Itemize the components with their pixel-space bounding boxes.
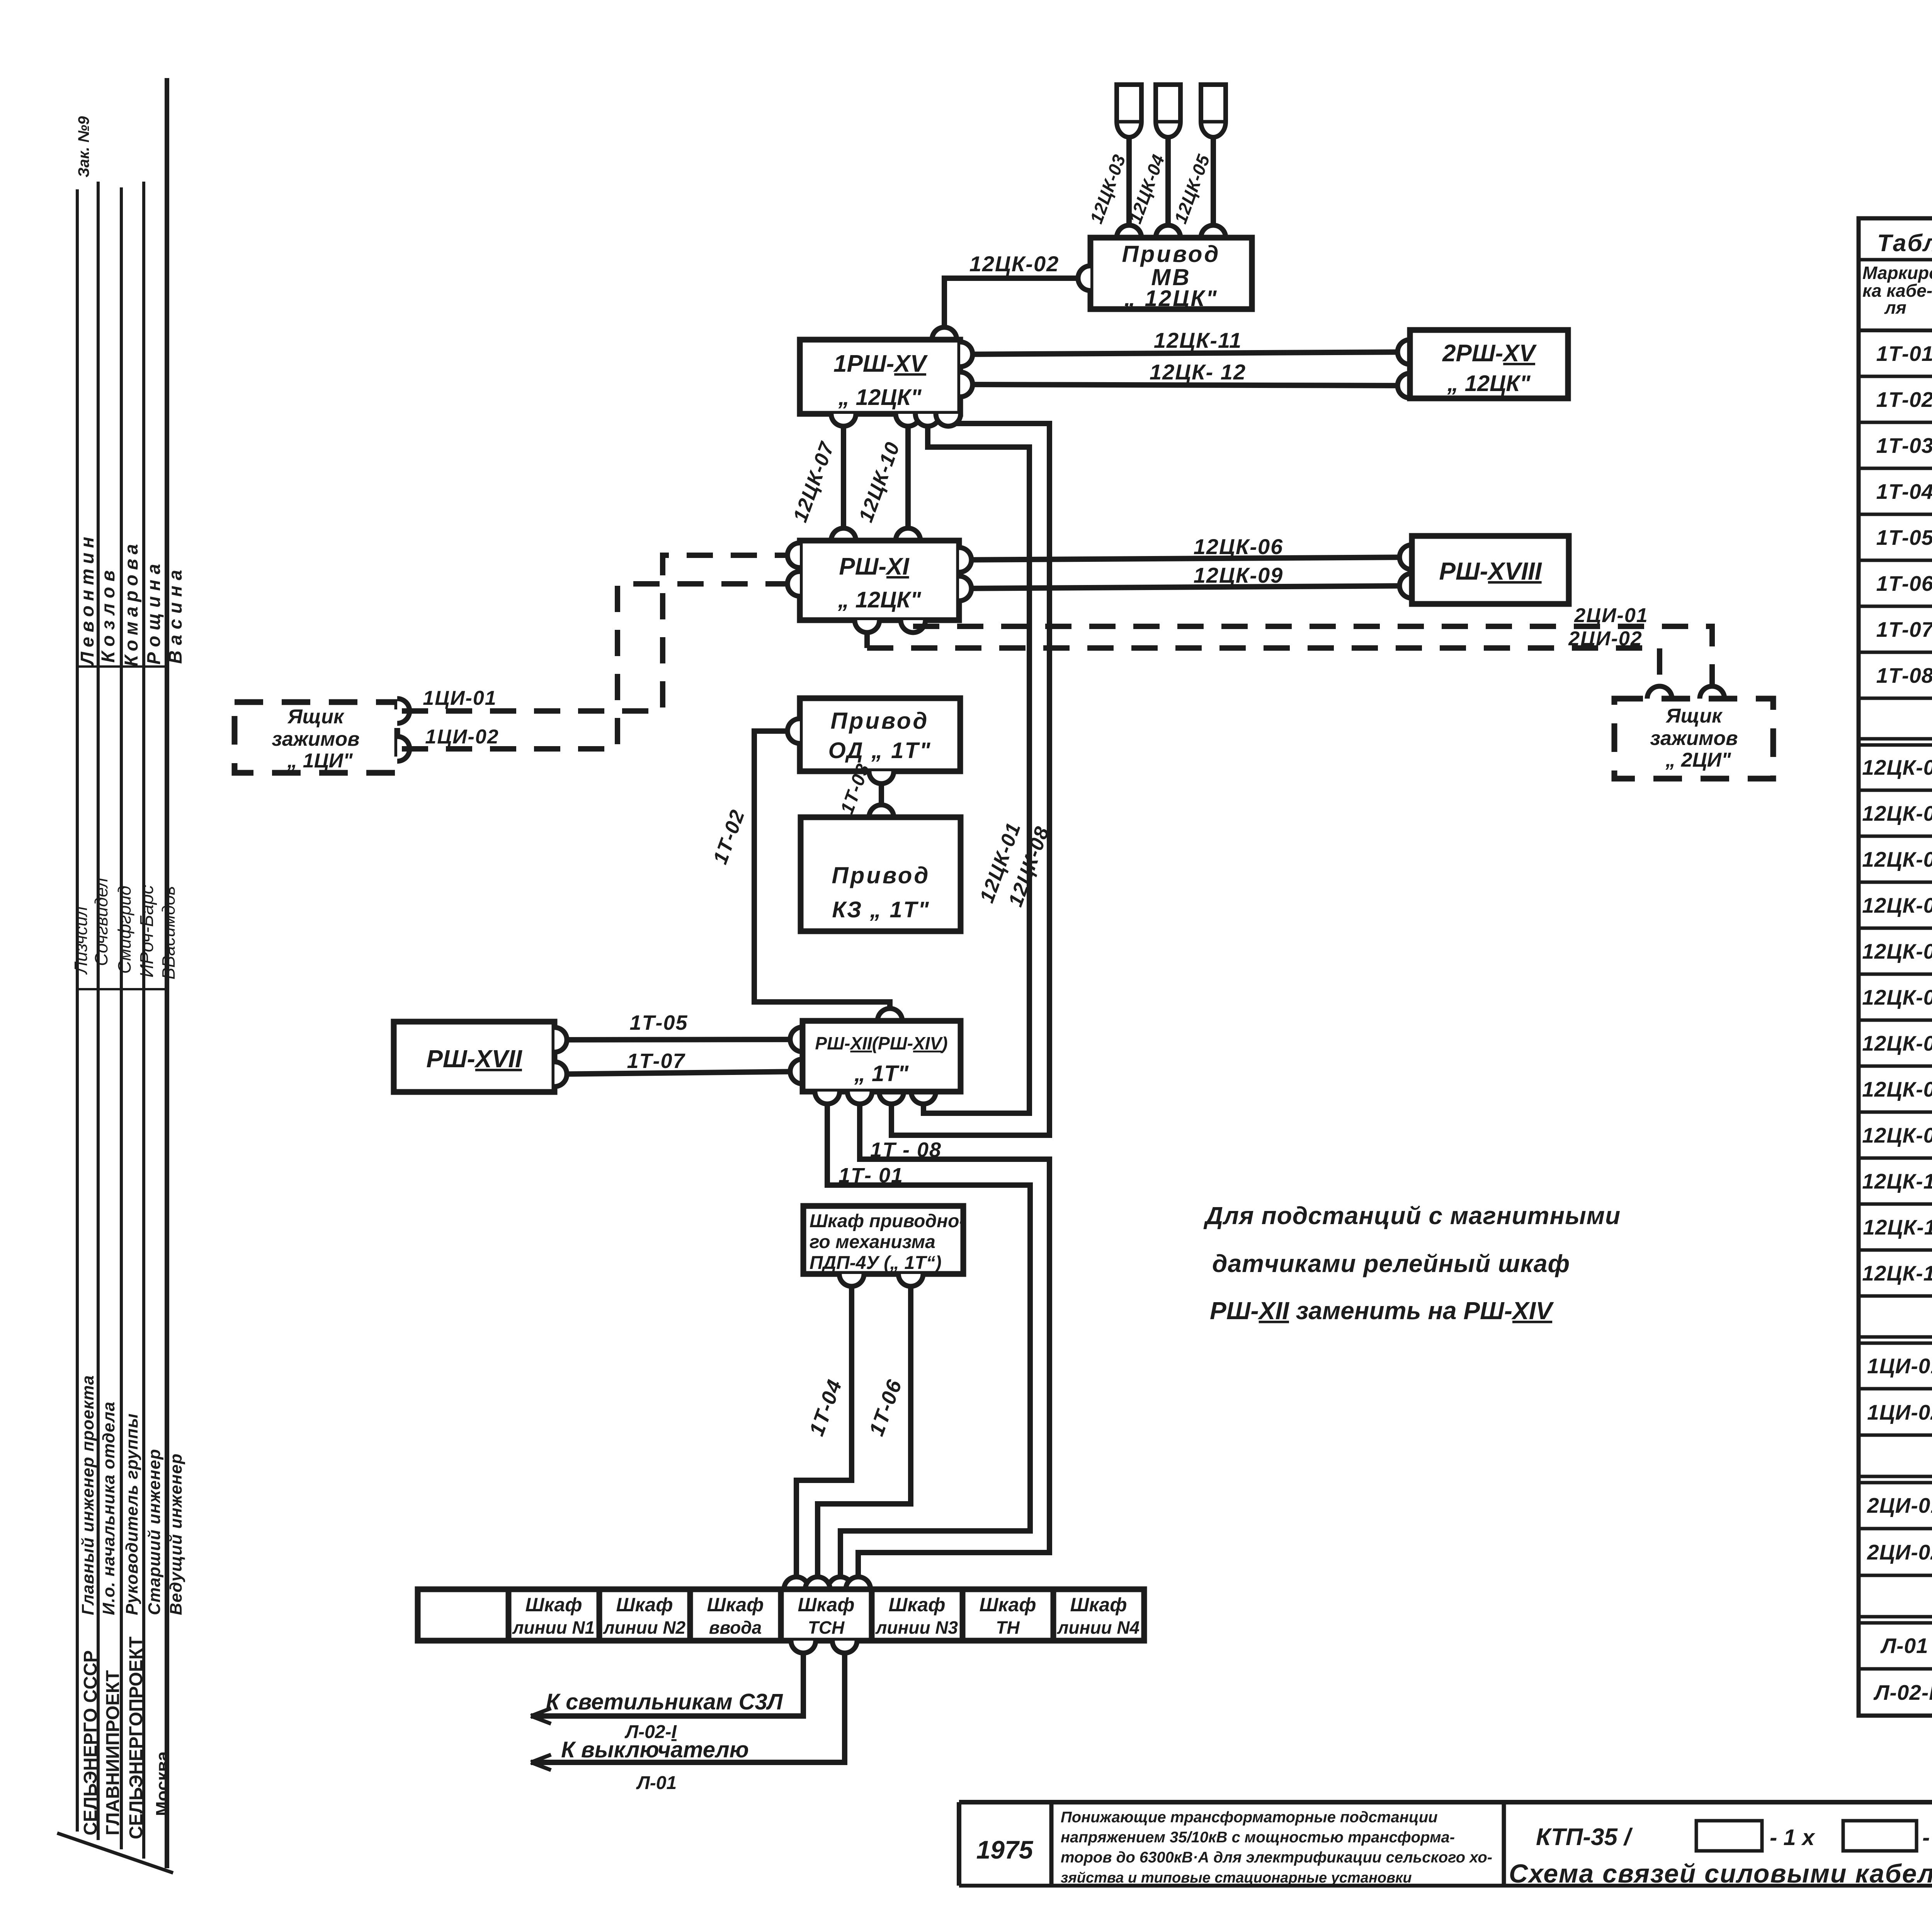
table row line below row 11 bbox=[1859, 835, 1932, 838]
svg-text:ВВасимдов: ВВасимдов bbox=[158, 886, 179, 980]
wire 2ЦИ-01 stub from RSh-XI bottom bbox=[910, 620, 916, 626]
svg-text:1Т-04: 1Т-04 bbox=[1876, 480, 1932, 503]
svg-text:12ЦК-10: 12ЦК-10 bbox=[1862, 1169, 1932, 1193]
svg-text:СЕЛЬЭНЕРГОПРОЕКТ: СЕЛЬЭНЕРГОПРОЕКТ bbox=[126, 1636, 146, 1839]
table row line below row 15 bbox=[1859, 1019, 1932, 1022]
bump 12ЦК-07 bottom bbox=[831, 528, 856, 541]
bump 1Т-05 right bbox=[790, 1027, 803, 1052]
table row line below row 26 bbox=[1859, 1527, 1932, 1531]
bump 1Т-02 at RSh-XII top bbox=[878, 1009, 902, 1021]
left strip separator tick names bbox=[77, 665, 167, 668]
wire 12ЦК-08 (1RSh-XV to RSh-XII "1T") bbox=[891, 414, 1049, 1135]
svg-text:Для подстанций с магнитными: Для подстанций с магнитными bbox=[1203, 1202, 1621, 1230]
svg-text:ля: ля bbox=[1884, 298, 1906, 318]
svg-text:12ЦК-09: 12ЦК-09 bbox=[1862, 1123, 1932, 1147]
svg-text:Старший инженер: Старший инженер bbox=[145, 1449, 164, 1615]
bump 12ЦК-01 at 1RSh-XV bbox=[915, 414, 940, 426]
svg-text:Главный инженер проекта: Главный инженер проекта bbox=[78, 1375, 97, 1615]
left title-strip vertical rule 4 bbox=[142, 182, 145, 1859]
svg-text:1РШ-XV: 1РШ-XV bbox=[833, 350, 928, 377]
svg-text:2ЦИ-01: 2ЦИ-01 bbox=[1574, 604, 1648, 627]
svg-text:- (35-6).: - (35-6). bbox=[1922, 1825, 1932, 1850]
block Privod MV "12CK" bbox=[1090, 238, 1252, 309]
bump 1Т-04 at PDP-4U bbox=[839, 1274, 864, 1286]
wire 12ЦК-10 (1RSh-XV to RSh-XI) bbox=[905, 414, 911, 541]
svg-text:КЗ „ 1Т": КЗ „ 1Т" bbox=[832, 897, 930, 922]
svg-text:Привод: Привод bbox=[831, 708, 929, 734]
svg-text:Л-01: Л-01 bbox=[1880, 1634, 1928, 1658]
svg-text:Л-02-I: Л-02-I bbox=[1873, 1680, 1932, 1704]
table row line below row 28 bbox=[1859, 1615, 1932, 1619]
cable termination 12ЦК-04 bbox=[1156, 85, 1180, 137]
svg-text:Привод: Привод bbox=[1122, 241, 1221, 267]
svg-text:1Т-07: 1Т-07 bbox=[627, 1049, 685, 1073]
svg-text:Лизчсил: Лизчсил bbox=[71, 906, 91, 975]
bump 1Т-04 at TSN bbox=[784, 1577, 809, 1589]
block 1RSh-XV "12CK" bbox=[800, 340, 960, 414]
left title-strip vertical rule 1 bbox=[76, 189, 79, 1832]
bump 12ЦК-01 at RSh-XII bbox=[911, 1092, 936, 1104]
bump 12ЦК-06 right bbox=[1400, 545, 1412, 570]
svg-text:2ЦИ-01: 2ЦИ-01 bbox=[1867, 1493, 1932, 1517]
svg-text:Шкаф: Шкаф bbox=[616, 1594, 673, 1616]
left strip diagonal bottom edge bbox=[57, 1833, 173, 1873]
bump 1Т-08 at RSh-XII bbox=[847, 1092, 872, 1104]
left title-strip vertical rule 2 bbox=[97, 182, 100, 1840]
table row line below row 19 bbox=[1859, 1202, 1932, 1206]
table row line below row 18 bbox=[1859, 1156, 1932, 1160]
svg-text:Сочгвидел: Сочгвидел bbox=[91, 878, 111, 966]
table row line below row 3 bbox=[1859, 467, 1932, 470]
svg-text:Шкаф: Шкаф bbox=[798, 1594, 855, 1616]
bump 1Т-07 left bbox=[554, 1062, 567, 1087]
table row line below row 6 bbox=[1859, 605, 1932, 608]
svg-text:„ 1ЦИ": „ 1ЦИ" bbox=[287, 750, 353, 772]
svg-text:Рощина: Рощина bbox=[144, 558, 164, 665]
bump 12ЦК-11 left bbox=[960, 342, 973, 367]
svg-text:Смифгрид: Смифгрид bbox=[114, 886, 134, 974]
switchgear cell divider 6 bbox=[960, 1589, 966, 1641]
title block divider year bbox=[1049, 1802, 1054, 1886]
bump 2ЦИ-01 at RSh-XI bottom bbox=[901, 620, 925, 633]
bump 1Т-06 at TSN bbox=[805, 1577, 830, 1589]
bump 1Т-03 top bbox=[869, 771, 894, 784]
left title-strip vertical rule 3 bbox=[120, 187, 123, 1849]
wire 1ЦИ-02 solid stub into RSh-XI bbox=[775, 581, 800, 587]
svg-text:РШ-XVIII: РШ-XVIII bbox=[1439, 557, 1542, 585]
bump 12ЦК-08 at RSh-XII bbox=[879, 1092, 904, 1104]
svg-text:ИРоч-Барс: ИРоч-Барс bbox=[137, 885, 157, 978]
bump 1Т-05 left bbox=[554, 1027, 567, 1052]
svg-text:1Т-01: 1Т-01 bbox=[1876, 342, 1932, 366]
svg-text:К выключателю: К выключателю bbox=[561, 1737, 749, 1762]
block RSh-XVII bbox=[394, 1022, 554, 1092]
block 2RSh-XV "12CK" bbox=[1410, 330, 1568, 398]
svg-text:линии N4: линии N4 bbox=[1057, 1617, 1139, 1638]
table row line below row 16 bbox=[1859, 1065, 1932, 1068]
svg-text:СЕЛЬЭНЕРГО СССР: СЕЛЬЭНЕРГО СССР bbox=[80, 1650, 101, 1835]
svg-text:12ЦК-06: 12ЦК-06 bbox=[1862, 985, 1932, 1009]
svg-text:1ЦИ-01: 1ЦИ-01 bbox=[423, 687, 497, 709]
bump breaker wire at TSN bottom bbox=[832, 1641, 857, 1653]
bump 12ЦК-08 at 1RSh-XV bbox=[936, 414, 961, 426]
svg-text:ПДП-4У („ 1Т“): ПДП-4У („ 1Т“) bbox=[810, 1253, 942, 1273]
svg-text:Зак. №9: Зак. №9 bbox=[75, 116, 92, 177]
svg-text:2ЦИ-02: 2ЦИ-02 bbox=[1568, 628, 1642, 650]
wire 1Т-06 (PDP-4U to Shkaf TSN) bbox=[818, 1274, 911, 1584]
wire 2ЦИ-01 dashed bbox=[913, 626, 1712, 694]
svg-text:датчиками релейный шкаф: датчиками релейный шкаф bbox=[1212, 1250, 1570, 1277]
cable termination 12ЦК-03 bbox=[1117, 85, 1141, 137]
table row line below row 12 bbox=[1859, 881, 1932, 884]
svg-text:2ЦИ-02: 2ЦИ-02 bbox=[1867, 1540, 1932, 1564]
bump 1Т-06 at PDP-4U bbox=[898, 1274, 923, 1286]
table title row line bbox=[1859, 258, 1932, 262]
switchgear cell divider 3 bbox=[687, 1589, 693, 1641]
table row line below row 9 bbox=[1859, 737, 1932, 741]
svg-text:„ 2ЦИ": „ 2ЦИ" bbox=[1665, 749, 1731, 771]
svg-text:Шкаф приводно-: Шкаф приводно- bbox=[810, 1211, 965, 1231]
bump lamps wire at TSN bottom bbox=[791, 1641, 816, 1653]
svg-text:Шкаф: Шкаф bbox=[707, 1594, 764, 1616]
svg-text:1ЦИ-01: 1ЦИ-01 bbox=[1867, 1354, 1932, 1378]
table row line below row 4 bbox=[1859, 513, 1932, 516]
connector bump 12ЦК-02 at Privod MV left bbox=[1078, 266, 1090, 291]
wire to breaker (from TSN bottom) bbox=[531, 1641, 845, 1762]
switchgear cell divider 5 bbox=[869, 1589, 875, 1641]
wire to lamps (from TSN bottom) bbox=[531, 1641, 803, 1716]
svg-text:Ящик: Ящик bbox=[1665, 705, 1723, 727]
svg-text:Шкаф: Шкаф bbox=[889, 1594, 946, 1616]
svg-text:1Т-06: 1Т-06 bbox=[1876, 571, 1932, 595]
title block outer frame bbox=[959, 1800, 1932, 1804]
wire 12ЦК-02 bbox=[944, 278, 1090, 342]
svg-text:И.о. начальника отдела: И.о. начальника отдела bbox=[99, 1401, 118, 1615]
svg-text:12ЦК- 12: 12ЦК- 12 bbox=[1150, 360, 1246, 384]
wire 12ЦК-06 (RSh-XI to RSh-XVIII) bbox=[959, 557, 1412, 560]
svg-text:12ЦК-08: 12ЦК-08 bbox=[1862, 1077, 1932, 1101]
wire stem 12ЦК-05 bbox=[1211, 136, 1216, 227]
wire 12ЦК-01 (1RSh-XV to RSh-XII "1T") bbox=[923, 414, 1029, 1113]
switchgear cell divider 7 bbox=[1051, 1589, 1056, 1641]
svg-text:Таблица связей, выполненных: Таблица связей, выполненных силовыми каб… bbox=[1877, 230, 1932, 257]
bump 1Т-01 at RSh-XII bbox=[815, 1092, 840, 1104]
svg-text:12ЦК-09: 12ЦК-09 bbox=[1194, 563, 1283, 587]
svg-text:1Т-05: 1Т-05 bbox=[1876, 526, 1932, 549]
svg-text:Схема связей силовыми кабел: Схема связей силовыми кабелями bbox=[1509, 1859, 1932, 1888]
svg-text:ГЛАВНИИПРОЕКТ: ГЛАВНИИПРОЕКТ bbox=[103, 1670, 123, 1835]
wire 1ЦИ-02 dashed bbox=[402, 584, 775, 749]
bump 2ЦИ-02 at RSh-XI bottom bbox=[855, 620, 879, 633]
svg-text:„ 12ЦК": „ 12ЦК" bbox=[837, 587, 922, 612]
svg-text:12ЦК-02: 12ЦК-02 bbox=[969, 252, 1059, 276]
svg-text:Л-01: Л-01 bbox=[636, 1773, 677, 1793]
svg-text:Комарова: Комарова bbox=[121, 539, 142, 667]
svg-text:Шкаф: Шкаф bbox=[1070, 1594, 1127, 1616]
left strip separator tick signatures bbox=[77, 988, 167, 990]
svg-text:12ЦК-11: 12ЦК-11 bbox=[1154, 328, 1242, 352]
terminal box Yaschik zazhimov "1CI" (dashed) bbox=[235, 702, 397, 773]
svg-text:РШ-XII(РШ-XIV): РШ-XII(РШ-XIV) bbox=[815, 1033, 947, 1053]
svg-text:торов до 6300кВ·А для электриф: торов до 6300кВ·А для электрификации сел… bbox=[1061, 1849, 1492, 1866]
table row line below row 7 bbox=[1859, 651, 1932, 654]
bump 12ЦК-12 right bbox=[1398, 373, 1410, 398]
connector bump 12ЦК-05 at Privod MV bbox=[1201, 225, 1226, 238]
switchgear row outer frame bbox=[418, 1589, 1144, 1641]
table row line below row 13 bbox=[1859, 927, 1932, 930]
svg-text:ТСН: ТСН bbox=[808, 1617, 845, 1638]
bump 1Т-07 right bbox=[790, 1059, 803, 1084]
connector bump 12ЦК-03 at Privod MV bbox=[1117, 225, 1141, 238]
svg-text:12ЦК-11: 12ЦК-11 bbox=[1863, 1215, 1932, 1239]
svg-text:„ 12ЦК": „ 12ЦК" bbox=[838, 385, 922, 410]
bump 1Т-03 bottom bbox=[869, 805, 894, 817]
svg-text:„ 12ЦК": „ 12ЦК" bbox=[1447, 371, 1531, 396]
svg-text:линии N3: линии N3 bbox=[875, 1617, 958, 1638]
table row line below row 1 bbox=[1859, 375, 1932, 378]
svg-text:К светильникам С3Л: К светильникам С3Л bbox=[546, 1689, 783, 1714]
svg-text:напряжением 35/10кВ с мощност: напряжением 35/10кВ с мощностью трансфор… bbox=[1061, 1829, 1455, 1846]
switchgear cell divider 2 bbox=[597, 1589, 602, 1641]
bump 12ЦК-09 right bbox=[1400, 573, 1412, 598]
svg-text:„ 1Т": „ 1Т" bbox=[854, 1061, 909, 1086]
wire 12ЦК-07 (1RSh-XV to RSh-XI) bbox=[841, 414, 846, 541]
svg-text:Шкаф: Шкаф bbox=[980, 1594, 1036, 1616]
svg-text:РШ-XVII: РШ-XVII bbox=[426, 1045, 522, 1073]
wire 1Т-07 (RSh-XVII to RSh-XII) bbox=[554, 1071, 803, 1074]
connector bump 12ЦК-04 at Privod MV bbox=[1156, 225, 1180, 238]
svg-text:1Т-07: 1Т-07 bbox=[1876, 617, 1932, 641]
switchgear cell divider 4 bbox=[778, 1589, 784, 1641]
table outer border bbox=[1859, 218, 1932, 1716]
svg-text:12ЦК-04: 12ЦК-04 bbox=[1862, 893, 1932, 917]
bump 2ЦИ-01 at box 2CI bbox=[1700, 686, 1725, 699]
bump 1ЦИ-02 at box 1CI bbox=[397, 736, 410, 761]
wire 1ЦИ-01 solid stub into RSh-XI bbox=[775, 553, 800, 558]
table row line below row 22 bbox=[1859, 1335, 1932, 1339]
arrow head breaker wire bbox=[531, 1755, 551, 1770]
svg-text:1ЦИ-02: 1ЦИ-02 bbox=[425, 726, 499, 748]
switchgear cell divider 1 bbox=[506, 1589, 512, 1641]
wire 1Т-03 (Privod OD to Privod KZ) bbox=[879, 771, 884, 817]
bump 1ЦИ-01 at box 1CI bbox=[397, 699, 410, 723]
svg-text:РШ-XII заменить на РШ-XIV: РШ-XII заменить на РШ-XIV bbox=[1210, 1297, 1554, 1325]
wire stem 12ЦК-03 bbox=[1126, 136, 1132, 227]
svg-text:ТН: ТН bbox=[996, 1617, 1020, 1638]
left title-strip vertical rule 5 (thick) bbox=[165, 78, 169, 1868]
svg-text:Васина: Васина bbox=[165, 565, 186, 664]
table row line below row 21 bbox=[1859, 1294, 1932, 1298]
svg-text:Шкаф: Шкаф bbox=[526, 1594, 582, 1616]
table row line below row 27 bbox=[1859, 1574, 1932, 1577]
svg-text:зяйства и типовые стационарные: зяйства и типовые стационарные установки bbox=[1061, 1870, 1412, 1886]
svg-text:1Т- 01: 1Т- 01 bbox=[838, 1164, 903, 1187]
svg-text:Руководитель группы: Руководитель группы bbox=[122, 1413, 141, 1615]
svg-text:ОД „ 1Т": ОД „ 1Т" bbox=[828, 738, 932, 763]
wire 1Т-01 (RSh-XII to Shkaf TSN) bbox=[827, 1092, 1030, 1584]
wire 12ЦК-12 bbox=[960, 384, 1410, 386]
svg-text:1Т-03: 1Т-03 bbox=[1876, 434, 1932, 457]
wire 1Т-02 (Privod OD to RSh-XII) bbox=[754, 731, 890, 1016]
table row line below row 5 bbox=[1859, 559, 1932, 562]
svg-text:12ЦК-01: 12ЦК-01 bbox=[1862, 755, 1932, 779]
block RSh-XI "12CK" bbox=[800, 541, 959, 620]
wire 12ЦК-09 (RSh-XI to RSh-XVIII) bbox=[959, 586, 1412, 588]
svg-text:12ЦК-02: 12ЦК-02 bbox=[1862, 801, 1932, 825]
wire 1ЦИ-01 dashed bbox=[402, 555, 775, 711]
bump 12ЦК-12 left bbox=[960, 372, 973, 397]
svg-text:Козлов: Козлов bbox=[98, 565, 119, 663]
svg-text:- 1 х: - 1 х bbox=[1770, 1825, 1816, 1850]
table header row line bbox=[1859, 330, 1932, 331]
svg-text:1ЦИ-02: 1ЦИ-02 bbox=[1867, 1400, 1932, 1424]
bump 12ЦК-07 top bbox=[831, 414, 856, 426]
bump 2ЦИ-02 at box 2CI bbox=[1647, 686, 1672, 699]
svg-text:12ЦК-07: 12ЦК-07 bbox=[1862, 1031, 1932, 1055]
bump 1ЦИ-02 at RSh-XI left bbox=[787, 571, 800, 596]
title block divider description bbox=[1502, 1802, 1506, 1886]
wire 2ЦИ-02 stub from RSh-XI bottom bbox=[864, 620, 870, 648]
svg-text:Понижающие трансформаторные: Понижающие трансформаторные подстанции bbox=[1061, 1809, 1438, 1826]
svg-text:2РШ-XV: 2РШ-XV bbox=[1442, 340, 1537, 367]
table row line below row 10 bbox=[1859, 789, 1932, 792]
terminal box Yaschik zazhimov "2CI" (dashed) bbox=[1614, 699, 1773, 779]
svg-text:1Т - 08: 1Т - 08 bbox=[870, 1138, 942, 1162]
svg-text:зажимов: зажимов bbox=[272, 728, 359, 750]
svg-text:1975: 1975 bbox=[976, 1835, 1034, 1864]
block Privod OD "1T" bbox=[800, 698, 960, 771]
bump 12ЦК-06 left bbox=[959, 548, 971, 572]
svg-text:зажимов: зажимов bbox=[1650, 727, 1738, 750]
svg-text:Москва: Москва bbox=[152, 1751, 172, 1816]
svg-text:12ЦК-12: 12ЦК-12 bbox=[1862, 1261, 1932, 1285]
block Shkaf privodnogo mekhanizma PDP-4U ("1T") bbox=[803, 1206, 963, 1274]
table row line below row 23 bbox=[1859, 1387, 1932, 1391]
svg-text:12ЦК-06: 12ЦК-06 bbox=[1194, 534, 1283, 559]
svg-text:РШ-XI: РШ-XI bbox=[839, 553, 910, 580]
block RSh-XVIII bbox=[1412, 536, 1569, 604]
wire 2ЦИ-02 dashed bbox=[867, 648, 1660, 694]
svg-text:КТП-35 /: КТП-35 / bbox=[1536, 1824, 1633, 1850]
table row line below row 17 bbox=[1859, 1111, 1932, 1114]
table row line below row 20 bbox=[1859, 1248, 1932, 1252]
svg-text:12ЦК-03: 12ЦК-03 bbox=[1862, 847, 1932, 871]
table row line below row 14 bbox=[1859, 973, 1932, 976]
block Privod KZ "1T" bbox=[801, 817, 961, 931]
connector bump 12ЦК-02 at 1RSh-XV top bbox=[932, 327, 957, 340]
svg-text:ввода: ввода bbox=[709, 1617, 762, 1638]
bump 1Т-08 at TSN bbox=[846, 1577, 871, 1589]
table row line below row 8 bbox=[1859, 697, 1932, 700]
bump 1ЦИ-01 at RSh-XI left bbox=[787, 543, 800, 568]
svg-text:1Т-08: 1Т-08 bbox=[1876, 663, 1932, 687]
block RSh-XII (RSh-XIV) "1T" bbox=[803, 1021, 961, 1092]
svg-text:„ 12ЦК": „ 12ЦК" bbox=[1124, 286, 1218, 311]
table row line below row 2 bbox=[1859, 421, 1932, 424]
wire 1Т-08 (RSh-XII to Shkaf TSN) bbox=[858, 1092, 1049, 1584]
wire 12ЦК-11 bbox=[960, 352, 1410, 354]
svg-text:1Т-02: 1Т-02 bbox=[1876, 388, 1932, 412]
svg-text:1Т-05: 1Т-05 bbox=[629, 1011, 688, 1034]
bump 1Т-01 at TSN bbox=[828, 1577, 853, 1589]
wire stem 12ЦК-04 bbox=[1165, 136, 1171, 227]
svg-text:Ящик: Ящик bbox=[287, 706, 345, 728]
bump 12ЦК-10 top bbox=[896, 414, 920, 426]
cable termination 12ЦК-05 bbox=[1201, 85, 1226, 137]
bump 1Т-02 at Privod OD left bbox=[787, 719, 800, 743]
table row line below row 24 bbox=[1859, 1434, 1932, 1437]
bump 12ЦК-11 right bbox=[1398, 340, 1410, 364]
svg-text:Маркиров: Маркиров bbox=[1862, 263, 1932, 283]
bump 12ЦК-10 bottom bbox=[896, 528, 920, 541]
bump 12ЦК-09 left bbox=[959, 576, 971, 601]
wire 1Т-05 (RSh-XVII to RSh-XII) bbox=[554, 1039, 803, 1040]
table row line below row 25 bbox=[1859, 1475, 1932, 1478]
svg-text:Привод: Привод bbox=[832, 862, 930, 888]
svg-text:12ЦК-05: 12ЦК-05 bbox=[1862, 939, 1932, 963]
svg-text:Левонтин: Левонтин bbox=[77, 532, 98, 666]
wire 1Т-04 (PDP-4U to Shkaf TSN) bbox=[796, 1274, 852, 1584]
svg-text:Ведущий инженер: Ведущий инженер bbox=[167, 1453, 185, 1615]
table row line below row 29 bbox=[1859, 1667, 1932, 1671]
arrow head lamps wire bbox=[531, 1708, 551, 1724]
svg-text:линии N2: линии N2 bbox=[603, 1617, 686, 1638]
svg-text:линии N1: линии N1 bbox=[512, 1617, 595, 1638]
svg-text:го механизма: го механизма bbox=[810, 1232, 935, 1252]
